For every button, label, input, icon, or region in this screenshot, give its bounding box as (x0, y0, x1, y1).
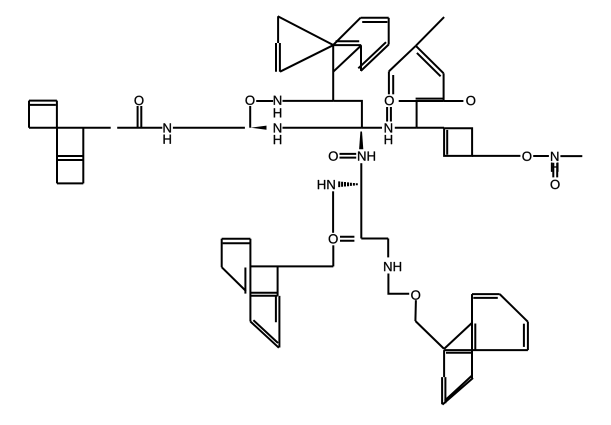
atom label NH (amine) (384, 262, 401, 271)
bond O-N (533, 155, 549, 157)
atom label N2 with H (274, 123, 281, 132)
double bond lines lower part (276, 43, 280, 72)
C6=O double bond (340, 237, 354, 241)
atom label O (nitrite) (522, 152, 531, 161)
wedge bond C5 to N2 (251, 126, 267, 130)
bond V1 up to furan bottom (416, 101, 418, 128)
bond C4 down to C6 (360, 183, 362, 239)
double bond inner line (446, 130, 448, 155)
methyl bond from furan apex (416, 17, 444, 46)
bond N2 to C3 (283, 127, 362, 129)
bond N-CH3 (560, 155, 582, 157)
bond CH2 diagonal to benzyl Q (415, 321, 444, 349)
bicyclic left: cyclobutene square top (29, 101, 57, 128)
bond dash to carbonyl (117, 127, 162, 129)
carbonyl C=O double bond (138, 106, 142, 127)
bond N to V1 (395, 127, 417, 129)
wedge bond C3 down to NH (359, 132, 363, 150)
cyclopropene triangle top (276, 16, 333, 71)
atom label O furan (385, 96, 394, 105)
cyclobutene square right (444, 128, 472, 156)
N=O double bond down (553, 163, 557, 178)
bond amide N to C5 (173, 127, 245, 129)
bond O down to CH2 (414, 300, 417, 321)
benzyl ring right-bottom (distorted benzene) (442, 294, 528, 405)
bond spiro C down to chain C1 (332, 45, 334, 101)
furan ring with methyl (389, 46, 444, 101)
bond NH down and right to O (388, 274, 409, 294)
bond CH2 down to NH (387, 239, 389, 258)
atom label O (nitrite terminal) (551, 180, 560, 189)
bond C1-C2 chain corner (333, 101, 362, 128)
bond O down to C5 (249, 106, 251, 128)
bond O-N1 (256, 100, 273, 102)
bond N1 to C1 (283, 100, 334, 102)
bond square to O (472, 155, 520, 157)
bond NH down to C4 (360, 163, 362, 182)
double bond between fused squares (57, 156, 83, 160)
atom label HN (318, 180, 335, 189)
atom label O (ether) (411, 290, 420, 299)
O=NH group (329, 151, 338, 160)
atom label O (ester) (329, 234, 338, 243)
atom label N with H below furan (385, 123, 392, 132)
benzyl ring left-bottom (distorted benzene) (222, 239, 280, 348)
atom label O right of furan (466, 96, 475, 105)
double bond inner line of top edge (30, 104, 56, 106)
bond C6 to CH2 right (361, 238, 388, 240)
benzene ring top (distorted hexagon) (333, 18, 389, 71)
bond furan to O right (444, 100, 464, 102)
atom label O (oxaza ring) (245, 96, 254, 105)
hashed stereo bond C4 to HN (339, 181, 357, 187)
bond diagonal D1 (333, 46, 361, 72)
atom label N (nitrite) (551, 152, 558, 161)
O=N double bond below furan O (387, 107, 391, 122)
atom label N-H (amide) (164, 123, 171, 132)
bond HN down to O (332, 191, 334, 233)
atom label O (amide) (134, 96, 143, 105)
bond V1 to cyclobutene (417, 127, 445, 129)
bond chain left to benzyl (250, 265, 333, 267)
wire main chain horizontal through bicyclic (29, 127, 111, 129)
bond C3 to N (362, 127, 382, 129)
atom label N1 with H (274, 96, 281, 105)
bond O ester down (332, 245, 334, 266)
atom label H (nitrite N-H) (551, 163, 558, 172)
fused cyclobutene squares below (57, 128, 83, 184)
